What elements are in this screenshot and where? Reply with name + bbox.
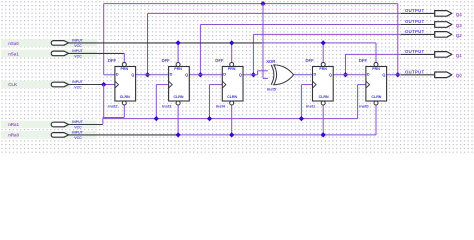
output port symbol Q1	[435, 52, 452, 58]
svg-text:DFF: DFF	[359, 58, 368, 63]
svg-text:DFF: DFF	[108, 58, 117, 63]
output port symbol Q0	[435, 72, 452, 78]
svg-text:CLRN: CLRN	[319, 95, 329, 99]
wire output stub Q2	[401, 33, 435, 35]
wire net CLK dark run from input	[68, 84, 104, 86]
svg-text:OUTPUT: OUTPUT	[405, 19, 425, 24]
PRN bubble	[321, 63, 325, 67]
svg-text:inst0: inst0	[359, 103, 369, 108]
svg-text:PRN: PRN	[228, 67, 236, 71]
wire inst2 Q to inst3 D	[136, 74, 169, 76]
svg-text:Q: Q	[131, 73, 134, 77]
wire jog up to XOR upper input	[257, 71, 259, 75]
CLRN bubble	[176, 101, 180, 105]
input port symbol nSa0	[51, 41, 68, 46]
D flip-flop inst2	[108, 58, 136, 108]
node junction CLK	[101, 82, 106, 87]
wire nSa0 drop to inst4 PRN	[231, 43, 233, 63]
DFF body inst0	[366, 67, 387, 102]
svg-text:DFF: DFF	[162, 58, 171, 63]
svg-text:nRa0: nRa0	[8, 132, 19, 137]
svg-text:PRN: PRN	[121, 67, 129, 71]
wire XOR lower input vertical drop	[262, 4, 264, 79]
node junction nRa0 / inst4 CLRN	[229, 132, 234, 137]
wire net nSa1 horizontal dark run	[68, 52, 125, 54]
svg-text:inst1: inst1	[306, 103, 316, 108]
input pin nSa0	[8, 38, 83, 48]
clock pin triangle	[115, 81, 119, 88]
wire CLK into inst1 clock pin	[301, 84, 312, 86]
svg-text:PRN: PRN	[174, 67, 182, 71]
svg-text:Q: Q	[239, 73, 242, 77]
output port symbol Q4	[435, 11, 452, 17]
CLRN bubble	[374, 101, 378, 105]
wire XOR output to inst1 D	[294, 74, 313, 76]
svg-text:inst3: inst3	[162, 103, 172, 108]
wire nRa0 riser to inst0 CLRN	[375, 105, 377, 135]
svg-text:D: D	[223, 72, 226, 76]
wire nRa1 jog riser	[102, 118, 104, 125]
wire feedback right vertical (from Q of inst0)	[397, 4, 399, 75]
clock pin triangle	[366, 81, 370, 88]
wire net Q2 horizontal	[253, 33, 401, 35]
input pin nSa1	[8, 49, 83, 59]
svg-text:inst5: inst5	[267, 86, 277, 91]
output pin Q0	[401, 69, 462, 78]
svg-text:OUTPUT: OUTPUT	[405, 69, 425, 74]
wire inst3 Q to inst4 D	[189, 74, 222, 76]
svg-text:D: D	[170, 72, 173, 76]
svg-text:CLRN: CLRN	[120, 95, 130, 99]
XOR gate body	[274, 65, 294, 85]
svg-text:DFF: DFF	[215, 58, 224, 63]
wire inst1 Q to inst0 D	[333, 74, 366, 76]
CLRN bubble	[122, 101, 126, 105]
wire feedback left vertical down to D of inst2	[103, 4, 105, 75]
wire net Q1 riser from inst1 Q	[345, 54, 347, 74]
D flip-flop inst3	[162, 58, 190, 108]
input pin nRa1	[8, 120, 83, 130]
wire nSa0 drop to inst0 PRN	[375, 43, 377, 63]
wire CLK riser to inst0 clock	[357, 85, 359, 119]
node junction CLK rail / inst3	[154, 116, 159, 121]
wire net Q4 riser from inst2 Q	[147, 13, 149, 74]
wire CLK into inst2 clock pin	[104, 84, 115, 86]
wire feedback into D of inst2	[104, 74, 115, 76]
node junction inst1 Q	[343, 72, 348, 77]
input port symbol CLK	[51, 82, 68, 87]
svg-text:OUTPUT: OUTPUT	[405, 8, 425, 13]
svg-text:INPUT: INPUT	[72, 49, 83, 53]
svg-text:inst4: inst4	[216, 103, 226, 108]
PRN bubble	[176, 63, 180, 67]
svg-text:Q4: Q4	[456, 12, 463, 17]
node junction nSa0 / inst4 PRN	[229, 40, 234, 45]
wire nRa0 riser to inst3 CLRN	[177, 105, 179, 135]
PRN bubble	[122, 63, 126, 67]
input port symbol nRa1	[51, 122, 68, 127]
svg-text:Q: Q	[382, 73, 385, 77]
node junction inst0 Q (net Q0)	[395, 72, 400, 77]
wire nRa0 riser to inst1 CLRN	[322, 105, 324, 135]
svg-text:OUTPUT: OUTPUT	[405, 29, 425, 34]
wire net Q3 riser from inst3 Q	[199, 25, 201, 75]
output pin Q1	[401, 49, 462, 58]
svg-text:XOR: XOR	[266, 59, 275, 64]
input port symbol nSa1	[51, 51, 68, 56]
wire nRa1 jog horizontal	[103, 117, 125, 119]
D flip-flop inst1	[306, 58, 334, 108]
svg-text:CLRN: CLRN	[174, 95, 184, 99]
wire inst4 Q to XOR upper input	[243, 74, 258, 76]
DFF body inst3	[169, 67, 190, 102]
svg-text:INPUT: INPUT	[72, 38, 83, 42]
wire net nSa0 horizontal purple run	[262, 42, 376, 44]
wire XOR upper input horizontal	[258, 70, 268, 72]
output port symbol Q3	[435, 22, 452, 28]
wire CLK into inst4 clock pin	[210, 84, 223, 86]
svg-text:Q0: Q0	[456, 73, 463, 78]
node junction CLK rail / inst1	[299, 116, 304, 121]
svg-text:VCC: VCC	[74, 54, 82, 58]
XOR gate inst5	[266, 59, 293, 92]
svg-text:Q: Q	[185, 73, 188, 77]
wire CLK riser to inst1 clock	[300, 85, 302, 119]
svg-text:D: D	[367, 72, 370, 76]
PRN bubble	[230, 63, 234, 67]
wire feedback top horizontal (Q0 to D of inst2)	[104, 3, 398, 5]
svg-text:CLRN: CLRN	[227, 95, 237, 99]
node junction inst4 Q	[251, 72, 256, 77]
wire nSa0 drop to inst3 PRN	[177, 43, 179, 63]
clock pin triangle	[169, 81, 173, 88]
svg-text:VCC: VCC	[74, 136, 82, 140]
wire net nRa0 horizontal dark run	[68, 134, 179, 136]
wire net Q2 riser from inst4 Q	[252, 34, 254, 74]
node junction nRa0 / inst3 CLRN	[175, 132, 180, 137]
node junction inst3 Q	[198, 72, 203, 77]
wire net Q1 horizontal	[346, 53, 402, 55]
wire CLK into inst3 clock pin	[156, 84, 168, 86]
wire net Q4 horizontal	[148, 12, 402, 14]
input pin CLK	[8, 80, 83, 90]
wire nRa0 riser to inst4 CLRN	[231, 105, 233, 135]
wire net Q3 horizontal	[200, 24, 401, 26]
node junction nRa0 / inst1 CLRN	[321, 132, 326, 137]
wire nSa1 drop to inst2 PRN	[123, 53, 125, 62]
node feedback T-junction to XOR	[260, 1, 265, 6]
DFF body inst2	[115, 67, 136, 102]
svg-text:DFF: DFF	[306, 58, 315, 63]
PRN bubble	[374, 63, 378, 67]
svg-text:Q: Q	[329, 73, 332, 77]
node junction CLK rail / inst4	[207, 116, 212, 121]
D flip-flop inst0	[359, 58, 387, 108]
svg-text:OUTPUT: OUTPUT	[405, 49, 425, 54]
svg-text:VCC: VCC	[74, 86, 82, 90]
svg-text:D: D	[116, 72, 119, 76]
node junction inst2 Q	[145, 72, 150, 77]
svg-text:INPUT: INPUT	[72, 130, 83, 134]
wire inst0 Q to output Q0	[387, 74, 401, 76]
wire CLK riser to inst4 clock	[209, 85, 211, 119]
output pin Q2	[401, 29, 462, 38]
wire output stub Q0	[401, 74, 435, 76]
svg-text:inst2: inst2	[108, 103, 118, 108]
svg-text:nSa0: nSa0	[8, 41, 19, 46]
svg-text:VCC: VCC	[74, 126, 82, 130]
node junction nSa0 / inst1 PRN	[321, 40, 326, 45]
clock pin triangle	[222, 81, 226, 88]
svg-text:nRa1: nRa1	[8, 122, 19, 127]
wire CLK bottom rail	[104, 118, 358, 120]
svg-text:CLRN: CLRN	[371, 95, 381, 99]
XOR input arc	[271, 65, 274, 85]
svg-text:INPUT: INPUT	[72, 80, 83, 84]
svg-text:D: D	[314, 72, 317, 76]
output port symbol Q2	[435, 32, 452, 38]
svg-text:Q2: Q2	[456, 33, 463, 38]
svg-text:PRN: PRN	[319, 67, 327, 71]
output pin Q3	[401, 19, 462, 28]
svg-text:nSa1: nSa1	[8, 52, 19, 57]
DFF body inst1	[313, 67, 334, 102]
svg-text:Q3: Q3	[456, 23, 463, 28]
output pin Q4	[401, 8, 462, 17]
wire output stub Q3	[401, 24, 435, 26]
node junction nSa0 / inst3 PRN	[175, 40, 180, 45]
wire net nRa1 horizontal dark run	[68, 124, 103, 126]
svg-text:INPUT: INPUT	[72, 120, 83, 124]
wire nRa1 riser to inst2 CLRN	[123, 105, 125, 118]
input pin nRa0	[8, 130, 83, 140]
wire net nRa0 horizontal purple run	[178, 134, 376, 136]
CLRN bubble	[321, 101, 325, 105]
wire output stub Q1	[401, 53, 435, 55]
wire output stub Q4	[401, 12, 435, 14]
wire CLK riser to inst3 clock	[155, 85, 157, 119]
wire CLK vertical down to clock rail	[103, 85, 105, 119]
input port symbol nRa0	[51, 133, 68, 138]
wire XOR lower input horizontal	[263, 77, 268, 79]
wire net nSa0 horizontal dark run	[68, 42, 262, 44]
svg-text:CLK: CLK	[8, 82, 18, 87]
wire nSa0 drop to inst1 PRN	[322, 43, 324, 63]
DFF body inst4	[222, 67, 243, 102]
clock pin triangle	[313, 81, 317, 88]
D flip-flop inst4	[215, 58, 243, 108]
svg-text:VCC: VCC	[74, 44, 82, 48]
wire CLK into inst0 clock pin	[358, 84, 366, 86]
svg-text:Q1: Q1	[456, 53, 463, 58]
svg-text:PRN: PRN	[372, 67, 380, 71]
CLRN bubble	[230, 101, 234, 105]
